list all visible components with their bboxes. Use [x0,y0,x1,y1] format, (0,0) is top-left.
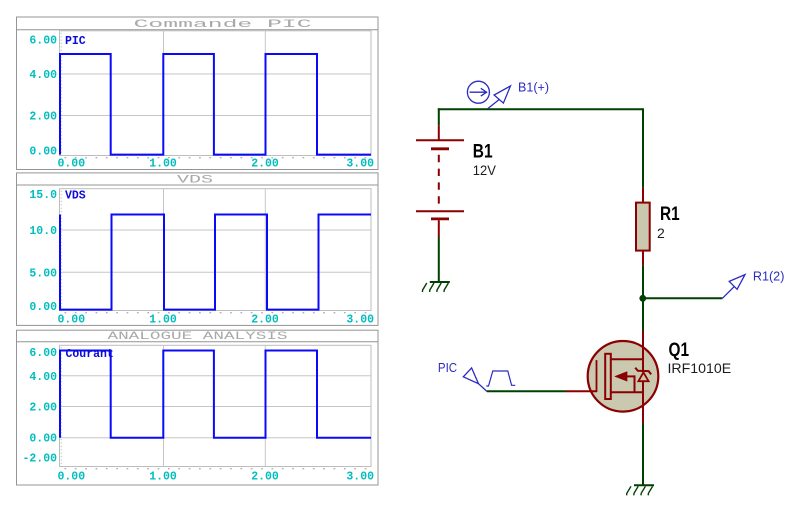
plot panel 2: title band separator [17,184,379,186]
plot panel 1: minor ticks bottom axis [65,157,372,159]
resistor R1 body [636,203,650,251]
transistor Q1 body circle [588,341,659,412]
wire: battery bottom to ground [438,237,440,282]
plot panel 3: minor tick dots left axis [60,347,62,464]
ground symbol (battery) [422,282,449,292]
svg-text:B1: B1 [473,142,493,163]
probe R1(2) pointer arrow [722,275,745,299]
svg-text:2: 2 [657,225,665,241]
svg-text:3.00: 3.00 [346,471,374,484]
resistor R1 bottom pin [642,251,644,266]
svg-text:2.00: 2.00 [251,158,279,171]
wire: junction down toward Q1 drain [642,298,644,330]
svg-text:PIC: PIC [438,360,457,375]
Q1 channel plate [605,354,611,399]
svg-text:R1(2): R1(2) [753,269,785,284]
plot panel 3: minor ticks bottom axis [65,468,372,470]
Q1 gate pin (red) [566,390,597,392]
svg-text:0.00: 0.00 [58,314,86,327]
svg-text:5.00: 5.00 [29,267,57,280]
plot panel 1: y axis labels [29,35,57,159]
Q1 drain connection bar [611,358,644,360]
plot panel 2: minor tick dots left axis [60,191,62,309]
svg-text:Q1: Q1 [669,340,690,361]
Q1 body diode cathode bar [635,368,651,375]
svg-text:15.0: 15.0 [29,189,57,202]
battery B1 cell 1 short plate [431,147,449,150]
svg-text:IRF1010E: IRF1010E [668,360,732,376]
plot panel 2: VDS — outer frame [17,173,379,326]
plot panel 1: horizontal gridlines [60,74,372,116]
plot panel 1: minor tick dots left axis [60,33,62,154]
plot panel 2: vertical gridlines [164,189,266,311]
svg-text:3.00: 3.00 [346,314,374,327]
plot panel 2: minor ticks bottom axis [65,312,372,314]
plot panel 3: horizontal gridlines [60,376,372,438]
plot panel 2: plot area border [60,189,372,311]
svg-text:4.00: 4.00 [29,69,57,82]
battery B1 dashed middle link [438,155,440,205]
Q1 source connection bar [611,391,644,393]
probe B1(+) pointer arrow [488,86,511,109]
battery B1 cell 1 long plate [416,139,464,141]
plot panel 2: horizontal gridlines [60,230,372,272]
svg-text:12V: 12V [473,162,497,178]
svg-text:VDS: VDS [177,174,214,186]
battery B1 bottom pin (red lead) [438,220,440,237]
svg-text:B1(+): B1(+) [518,79,549,94]
svg-text:10.0: 10.0 [29,225,57,238]
plot panel 3: x axis labels [58,471,375,484]
probe B1(+) circle with arrow [467,81,489,103]
svg-text:-2.00: -2.00 [22,453,57,466]
svg-text:Commande PIC: Commande PIC [134,19,313,31]
battery B1 top pin (red lead) [438,126,440,141]
svg-text:VDS: VDS [65,190,86,203]
svg-text:0.00: 0.00 [29,301,57,314]
svg-text:ANALOGUE ANALYSIS: ANALOGUE ANALYSIS [108,331,289,343]
wire: battery top vertical [438,108,440,125]
svg-text:R1: R1 [660,204,680,225]
plot panel 3: waveform trace [60,351,371,438]
plot panel 1: plot area border [60,31,372,156]
plot panel 1: waveform trace [60,54,371,155]
battery B1 cell 2 short plate [431,217,449,220]
generator PIC arrow [463,368,487,392]
svg-text:1.00: 1.00 [149,158,177,171]
svg-text:0.00: 0.00 [58,471,86,484]
svg-text:1.00: 1.00 [149,471,177,484]
plot panel 3: plot area border [60,345,372,466]
svg-text:0.00: 0.00 [58,158,86,171]
wire: Q1 source to ground [642,423,644,485]
wire: R1 to junction [642,265,644,298]
svg-text:1.00: 1.00 [149,314,177,327]
plot panel 3: y axis labels [22,347,57,466]
plot panel 1: x axis labels [58,158,375,171]
plot panel 1: vertical gridlines [164,31,266,156]
plot panel 3: title band separator [17,341,379,343]
svg-text:2.00: 2.00 [29,402,57,415]
plot panel 2: y axis labels [29,189,57,314]
wire: top rail from battery to R1 branch [438,108,643,110]
plot panel 2: x axis labels [58,314,375,327]
wire: top rail down to R1 [642,108,644,188]
wire: junction to R1(2) probe [643,297,722,299]
plot panel 1: Commande PIC — outer frame [17,17,379,170]
svg-text:PIC: PIC [65,35,86,48]
Q1 drain pin (red) [642,331,644,373]
generator PIC pulse waveform glyph [486,371,515,386]
resistor R1 top pin [642,188,644,203]
wire: PIC generator to Q1 gate [487,390,566,392]
Q1 body diode triangle [638,372,648,381]
battery B1 cell 2 long plate [416,210,464,212]
svg-text:2.00: 2.00 [29,111,57,124]
plot panel 2: waveform trace [60,215,371,310]
Q1 substrate arrow [615,372,635,393]
plot panel 3: ANALOGUE ANALYSIS — outer frame [17,330,379,485]
plot panel 3: vertical gridlines [164,345,266,466]
Q1 source pin (red) [642,381,644,423]
svg-text:2.00: 2.00 [251,471,279,484]
svg-text:2.00: 2.00 [251,314,279,327]
svg-text:4.00: 4.00 [29,371,57,384]
Q1 gate electrode [596,360,598,392]
svg-text:6.00: 6.00 [29,347,57,360]
plot panel 1: title band separator [17,29,379,31]
ground symbol (Q1 source) [627,485,654,495]
svg-text:6.00: 6.00 [29,35,57,48]
svg-text:0.00: 0.00 [29,433,57,446]
junction node dot [639,295,646,302]
svg-text:3.00: 3.00 [346,158,374,171]
svg-text:Courant: Courant [66,348,114,361]
svg-text:0.00: 0.00 [29,146,57,159]
